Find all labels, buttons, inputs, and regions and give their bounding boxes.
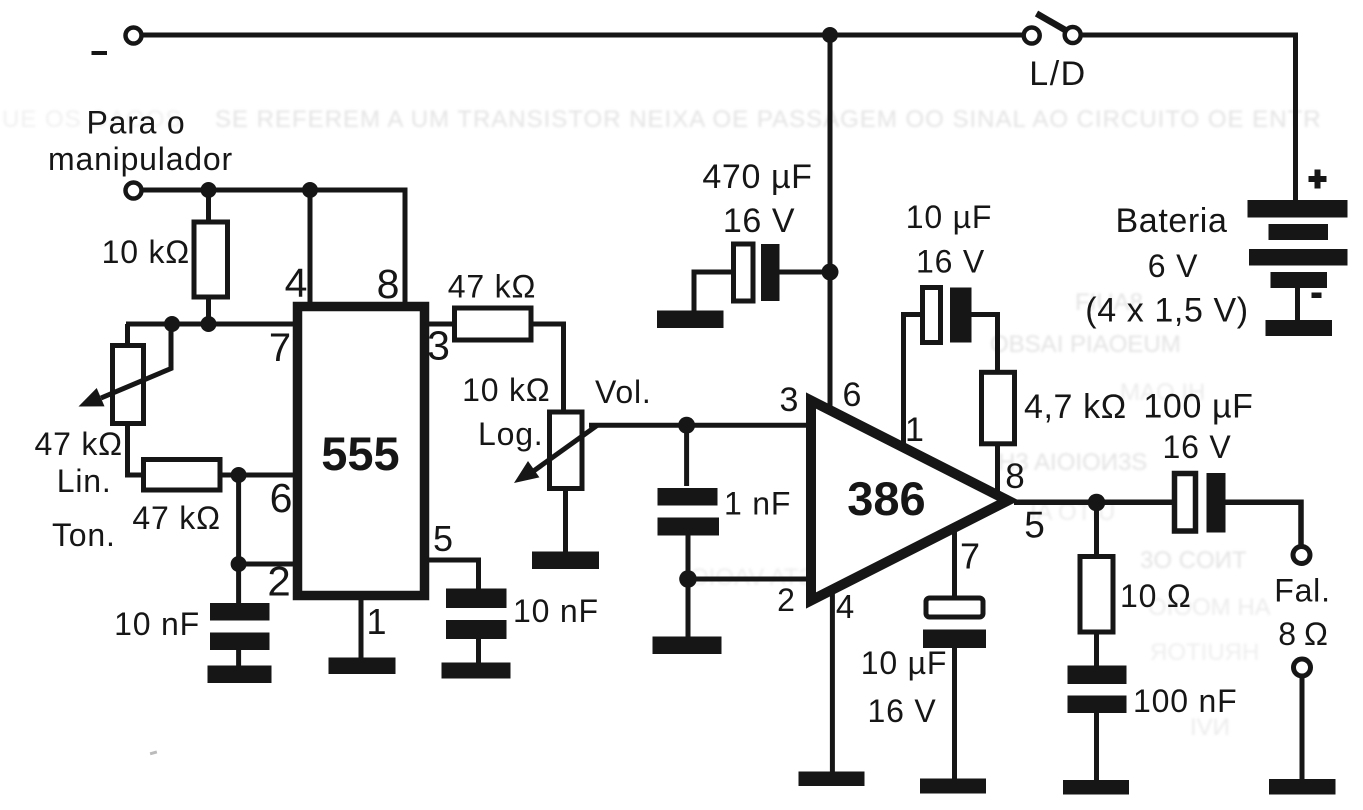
node C bbox=[164, 316, 180, 332]
svg-text:7: 7 bbox=[960, 536, 980, 577]
ground bbox=[1063, 780, 1129, 795]
svg-text:1: 1 bbox=[366, 601, 386, 642]
capacitor C3 1nF bbox=[684, 425, 689, 486]
ground bbox=[1269, 779, 1336, 795]
IC U1 555 timer bbox=[298, 307, 425, 596]
wire output pin5 bbox=[1014, 500, 1177, 506]
wire V+ rail down bbox=[828, 35, 833, 407]
svg-text:16 V: 16 V bbox=[723, 202, 795, 240]
wire pin7 bbox=[126, 322, 293, 327]
svg-text:555: 555 bbox=[321, 427, 399, 480]
svg-text:100 µF: 100 µF bbox=[1143, 388, 1253, 426]
svg-text:386: 386 bbox=[847, 472, 925, 525]
node E bbox=[231, 467, 247, 483]
capacitor C2 10nF bbox=[446, 589, 507, 640]
svg-text:470 µF: 470 µF bbox=[702, 158, 812, 196]
svg-text:10 kΩ: 10 kΩ bbox=[102, 234, 190, 270]
svg-text:7: 7 bbox=[269, 326, 291, 370]
svg-text:4: 4 bbox=[836, 588, 854, 625]
wire wiper to amp bbox=[589, 423, 810, 428]
wire pin1 bbox=[359, 600, 364, 659]
svg-text:2: 2 bbox=[777, 582, 795, 618]
resistor R3 47k bbox=[455, 308, 532, 340]
ground bbox=[657, 311, 724, 329]
svg-text:6: 6 bbox=[270, 475, 293, 521]
ground bbox=[208, 666, 272, 684]
svg-text:3: 3 bbox=[427, 323, 450, 369]
svg-text:L/D: L/D bbox=[1029, 55, 1086, 93]
svg-text:8: 8 bbox=[1005, 457, 1024, 496]
wire keyer rail bbox=[141, 190, 405, 302]
resistor R1 10k bbox=[206, 190, 211, 222]
wire pin4 bbox=[308, 190, 313, 302]
wire R3 to P2 bbox=[531, 324, 564, 412]
ground bbox=[532, 552, 599, 570]
wire pin2 bbox=[239, 562, 293, 567]
ground bbox=[329, 658, 396, 675]
potentiometer P1 47k Lin bbox=[125, 324, 130, 346]
ground bbox=[920, 779, 986, 794]
svg-text:Para o: Para o bbox=[86, 105, 185, 141]
svg-text:SE REFEREM A UM TRANSISTOR NEI: SE REFEREM A UM TRANSISTOR NEIXA OE PASS… bbox=[215, 106, 1322, 133]
terminal Fal bbox=[1293, 547, 1310, 564]
svg-text:10 nF: 10 nF bbox=[513, 593, 599, 629]
switch L/D bbox=[1024, 14, 1081, 44]
capacitor C1 10nF bbox=[210, 603, 270, 650]
svg-text:Ton.: Ton. bbox=[52, 517, 116, 553]
svg-text:1 nF: 1 nF bbox=[724, 486, 791, 522]
svg-text:4,7 kΩ: 4,7 kΩ bbox=[1024, 388, 1127, 426]
svg-text:100 nF: 100 nF bbox=[1133, 683, 1237, 719]
node D bbox=[201, 316, 217, 332]
wire pot to R2 bbox=[128, 424, 144, 476]
svg-text:47 kΩ: 47 kΩ bbox=[448, 269, 536, 305]
svg-text:4: 4 bbox=[285, 260, 308, 306]
capacitor C7 10uF pin7 bbox=[952, 531, 957, 598]
svg-text:Fal.: Fal. bbox=[1274, 573, 1331, 609]
potentiometer P2 10k Log bbox=[550, 412, 583, 489]
minus mark bbox=[92, 51, 108, 55]
ground bbox=[442, 663, 511, 679]
node F bbox=[231, 556, 247, 572]
wire switch to battery bbox=[1082, 35, 1296, 200]
svg-text:10 Ω: 10 Ω bbox=[1120, 578, 1192, 614]
svg-text:5: 5 bbox=[433, 518, 453, 559]
svg-text:3O COИT: 3O COИT bbox=[1140, 547, 1247, 574]
svg-text:8 Ω: 8 Ω bbox=[1278, 616, 1329, 652]
svg-text:manipulador: manipulador bbox=[48, 141, 233, 177]
svg-text:3: 3 bbox=[780, 381, 799, 419]
node I bbox=[822, 264, 839, 281]
terminal input keyer bbox=[126, 183, 142, 199]
svg-text:16 V: 16 V bbox=[867, 693, 936, 729]
battery B1 6V bbox=[1248, 170, 1348, 337]
resistor R5 10ohm bbox=[1094, 503, 1099, 557]
svg-text:8: 8 bbox=[377, 261, 400, 307]
wire pin3 bbox=[429, 322, 455, 327]
ground bbox=[653, 637, 722, 655]
svg-text:16 V: 16 V bbox=[916, 244, 985, 280]
wire pin2 386 bbox=[688, 577, 810, 582]
wire pin5 bbox=[429, 560, 479, 589]
op-amp U2 386 bbox=[811, 401, 1008, 601]
ground bbox=[799, 772, 865, 787]
svg-text:Log.: Log. bbox=[478, 416, 543, 452]
terminal input top-left bbox=[126, 28, 142, 44]
svg-text:(4 x 1,5 V): (4 x 1,5 V) bbox=[1085, 292, 1248, 330]
wire pin6 bbox=[220, 473, 293, 478]
svg-text:1: 1 bbox=[905, 411, 924, 449]
svg-text:5: 5 bbox=[1024, 505, 1045, 546]
wire pin4 ground bbox=[830, 593, 835, 772]
svg-text:47 kΩ: 47 kΩ bbox=[35, 426, 123, 462]
node J bbox=[1088, 494, 1106, 512]
svg-text:10 nF: 10 nF bbox=[114, 606, 200, 642]
node A bbox=[201, 182, 217, 198]
node H bbox=[679, 570, 697, 588]
svg-text:6 V: 6 V bbox=[1148, 248, 1198, 284]
node G bbox=[678, 417, 695, 434]
wire P2 ground bbox=[563, 489, 568, 553]
svg-text:Lin.: Lin. bbox=[57, 463, 112, 499]
svg-text:2: 2 bbox=[267, 558, 290, 605]
svg-text:10 kΩ: 10 kΩ bbox=[462, 372, 550, 408]
terminal Fal return bbox=[1294, 659, 1311, 676]
svg-text:16 V: 16 V bbox=[1162, 429, 1231, 465]
node V+ top bbox=[822, 27, 838, 43]
svg-text:47 kΩ: 47 kΩ bbox=[132, 500, 220, 536]
wire top rail bbox=[141, 33, 1022, 38]
svg-text:Bateria: Bateria bbox=[1116, 202, 1228, 240]
capacitor C8 100nF bbox=[1068, 666, 1127, 714]
wire node E down bbox=[236, 475, 241, 603]
svg-text:6: 6 bbox=[843, 376, 862, 414]
svg-text:10 µF: 10 µF bbox=[861, 645, 947, 681]
svg-text:10 µF: 10 µF bbox=[906, 199, 992, 235]
svg-text:Vol.: Vol. bbox=[595, 374, 652, 410]
svg-text:OBSAI PIAOEUM: OBSAI PIAOEUM bbox=[990, 331, 1181, 358]
resistor R2 47k bbox=[144, 460, 221, 491]
svg-text:ЯOTIUЯH: ЯOTIUЯH bbox=[1150, 639, 1259, 666]
resistor R4 4.7k bbox=[982, 372, 1015, 444]
node B bbox=[302, 182, 318, 198]
